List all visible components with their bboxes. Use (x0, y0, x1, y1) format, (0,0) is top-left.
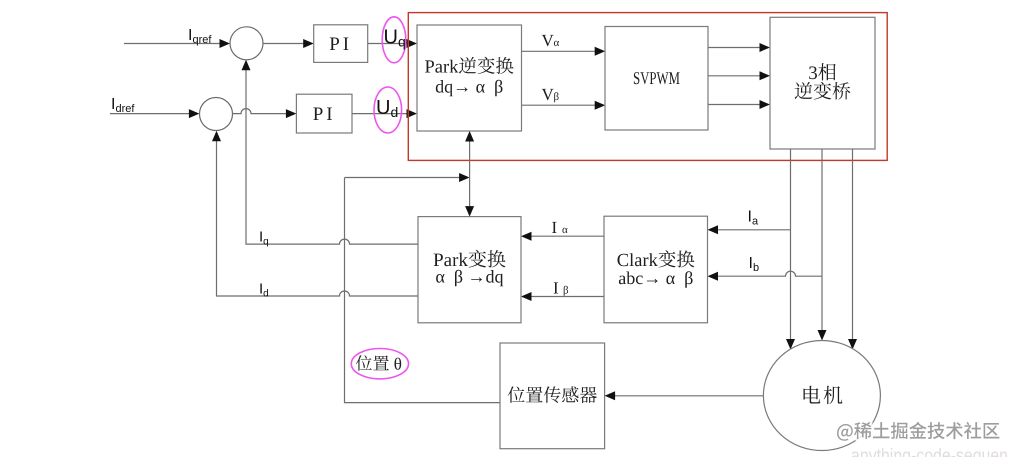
label Ib (749, 255, 760, 274)
svg-text:PI: PI (329, 34, 352, 55)
summing junction S1 (230, 27, 263, 60)
label Ia (748, 209, 759, 228)
wire I alpha Clark to Park (521, 232, 604, 241)
wire V alpha (522, 47, 606, 56)
svg-text:Uq: Uq (384, 27, 406, 50)
block Park inverse transform (417, 25, 522, 131)
wire input Iqref (124, 39, 230, 48)
label Iq (259, 229, 269, 248)
red highlight region (408, 13, 887, 161)
label V beta (542, 89, 559, 102)
wire Id feedback Park to S2 with hop over theta line (212, 131, 418, 296)
svg-text:Id: Id (259, 281, 269, 300)
block position sensor (500, 343, 605, 449)
svg-text:Ia: Ia (748, 209, 759, 228)
summing junction S2 (200, 98, 233, 131)
label V alpha (542, 35, 559, 46)
svg-text:Iq: Iq (259, 229, 269, 248)
wire theta horizontal to transform blocks (345, 173, 470, 182)
svg-text:Iqref: Iqref (188, 27, 212, 46)
block SVPWM (605, 27, 708, 131)
wire SVPWM to bridge 1 (708, 43, 770, 52)
wire V beta (522, 101, 606, 110)
faint partial watermark at bottom edge (851, 446, 1008, 457)
svg-text:anything-code-sequen: anything-code-sequen (851, 446, 1008, 457)
wire PI1 to Park inverse block (368, 39, 417, 48)
block Clark transform (604, 216, 708, 323)
ellipse around Ud (374, 87, 402, 133)
svg-text:Ud: Ud (376, 97, 398, 120)
wire S1 to PI1 (263, 39, 314, 48)
label Idref (111, 96, 135, 115)
svg-text:Idref: Idref (111, 96, 135, 115)
ellipse around position theta (351, 349, 408, 379)
wire Ia tap to Clark (708, 225, 791, 234)
label Ud (376, 97, 398, 120)
block PI2 (296, 94, 352, 133)
wire input Idref (110, 109, 199, 118)
wire phase A to motor (786, 149, 795, 350)
wire theta from position sensor (345, 178, 501, 403)
svg-text:PI: PI (313, 104, 336, 125)
wire S2 to PI2 with hop over Iq feedback (233, 109, 297, 119)
wire Iq feedback Park to S1 with hop over theta line (242, 60, 419, 244)
wire PI2 to Park inverse block (352, 109, 417, 118)
label I beta (554, 282, 569, 295)
label Uq (384, 27, 406, 50)
block PI1 (314, 25, 368, 63)
ellipse around Uq (382, 17, 406, 63)
label position theta (356, 355, 401, 371)
block 3-phase inverter bridge (770, 17, 875, 149)
label I alpha (552, 222, 567, 233)
wire phase B to motor (818, 149, 827, 341)
wire Ib tap to Clark with hop over phase A (708, 271, 823, 281)
watermark juejin community (837, 422, 999, 441)
wire phase C to motor (848, 149, 857, 350)
label Id (259, 281, 269, 300)
wire I beta Clark to Park (521, 292, 604, 301)
motor circle (763, 341, 880, 451)
wire SVPWM to bridge 2 (708, 71, 770, 80)
block Park transform (418, 217, 521, 323)
wire SVPWM to bridge 3 (708, 100, 770, 109)
svg-text:Ib: Ib (749, 255, 760, 274)
label Iqref (188, 27, 212, 46)
wire theta branch to Park inverse and Park transform (465, 131, 474, 217)
wire motor to position sensor (605, 391, 764, 400)
